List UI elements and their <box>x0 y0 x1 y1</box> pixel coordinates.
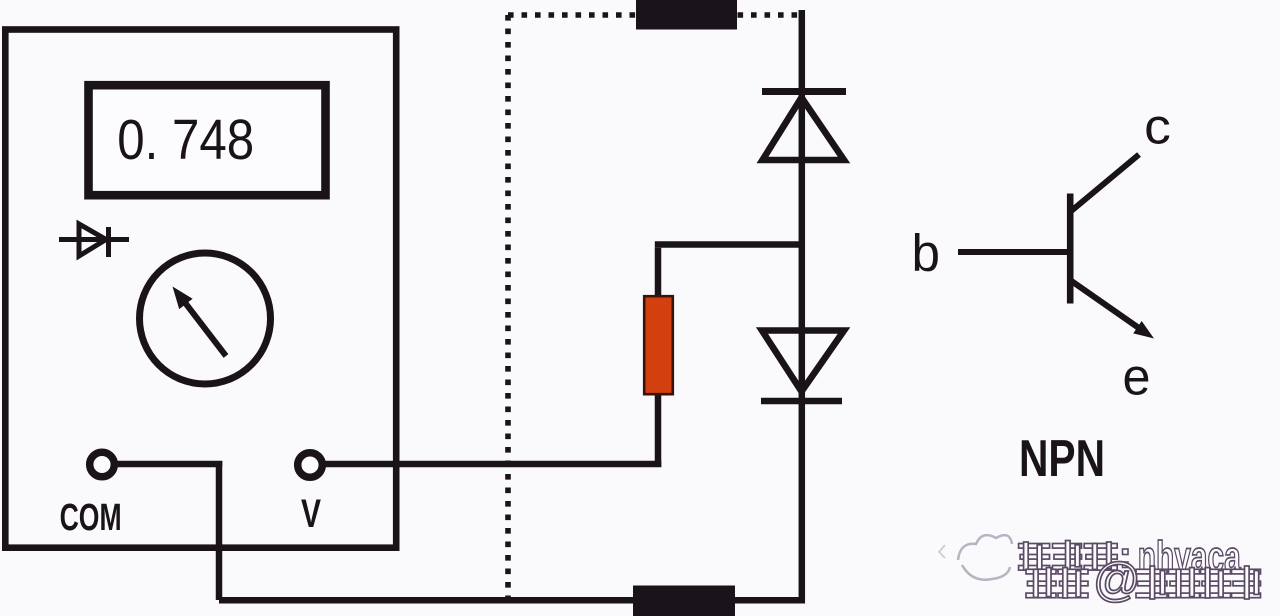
dotted test-lead boundary: top run <box>508 12 798 18</box>
wire: down from COM junction <box>216 461 223 600</box>
display window <box>89 85 326 195</box>
watermark colon <box>1123 549 1129 568</box>
diode symbol on meter face <box>59 224 129 257</box>
resistor R (body) <box>644 296 673 394</box>
wire: resistor to top node <box>655 248 662 310</box>
V terminal <box>298 453 323 478</box>
watermark hanzi line 2 (头条) <box>1026 568 1088 598</box>
svg-text:NPN: NPN <box>1019 430 1105 488</box>
transistor Q1 base lead <box>958 249 1067 255</box>
watermark doodle <box>939 535 1012 580</box>
svg-text:e: e <box>1123 349 1151 407</box>
black probe handle (bottom) <box>633 586 735 616</box>
meter dial <box>140 253 271 384</box>
dotted test-lead boundary: left drop <box>505 15 511 597</box>
wire: top run to riser <box>655 241 805 248</box>
wire: up from branch to resistor <box>655 380 662 467</box>
wire: COM terminal to corner junction <box>113 461 222 468</box>
wire: bottom run to black probe <box>219 597 636 604</box>
diode D2 triangle (bottom diode) <box>762 331 844 392</box>
wire: V terminal to resistor branch <box>321 461 661 468</box>
transistor Q1 collector lead <box>1070 155 1139 213</box>
COM terminal <box>90 452 115 477</box>
wire: right riser (collector lead) <box>799 10 806 604</box>
transistor Q1 base bar <box>1067 194 1074 304</box>
diode D2 cathode bar <box>761 398 842 405</box>
wire: probe to bottom-right corner <box>735 597 805 604</box>
black probe handle (top) <box>636 0 737 30</box>
svg-text:b: b <box>912 225 941 283</box>
diode D1 triangle <box>763 98 845 161</box>
svg-text:0. 748: 0. 748 <box>117 108 254 172</box>
svg-text:@: @ <box>1093 553 1141 606</box>
diode D1 cathode bar (top diode) <box>762 88 846 95</box>
transistor Q1 emitter lead with arrow <box>1070 280 1154 339</box>
multimeter M1 body <box>5 30 396 548</box>
watermark hanzi line 2 (暖通南社) <box>1136 566 1261 599</box>
meter needle <box>173 287 227 357</box>
watermark hanzi line 1 (微信号) <box>1019 541 1118 572</box>
svg-text:V: V <box>301 492 321 536</box>
svg-text:c: c <box>1144 98 1171 154</box>
svg-text:COM: COM <box>60 497 122 539</box>
